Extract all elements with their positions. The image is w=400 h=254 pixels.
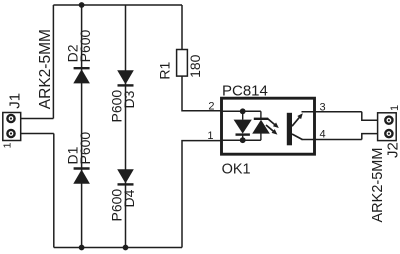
connector J1 body — [3, 113, 21, 141]
pin 1 marker of J2 — [389, 105, 400, 111]
wire bottom bus — [54, 247, 182, 249]
svg-text:2: 2 — [208, 100, 214, 112]
label D2 — [65, 44, 81, 62]
svg-text:R1: R1 — [157, 61, 173, 79]
op-amp U1 optocoupler OK1 box — [222, 98, 315, 154]
wire R1 bottom segment to OK1 pin 2 — [182, 76, 223, 111]
wire J1 pin 2 stub — [21, 118, 54, 120]
label J2 — [385, 142, 400, 158]
wire OK1 pin 3 — [302, 111, 362, 113]
diode D2 — [73, 68, 90, 83]
wire OK1 internal bottom rail — [222, 139, 261, 141]
node junction bottom bus / D1 column — [79, 245, 85, 251]
svg-text:ARK2-5MM: ARK2-5MM — [370, 148, 386, 223]
svg-text:4: 4 — [320, 128, 326, 140]
wire OK1 pin 4 — [302, 139, 362, 141]
svg-text:P600: P600 — [109, 189, 125, 222]
svg-text:J2: J2 — [385, 142, 400, 158]
node LED top junction — [240, 108, 246, 114]
svg-text:P600: P600 — [77, 29, 93, 62]
label ARK2-5MM of J1 — [37, 29, 54, 109]
diode D3 — [117, 70, 134, 85]
svg-text:J1: J1 — [7, 93, 24, 109]
pin number 2 — [208, 100, 214, 112]
value P600 of D2 — [77, 29, 93, 62]
value P600 of D4 — [109, 189, 125, 222]
wire OK1 pin 1 to bottom bus — [182, 141, 223, 248]
svg-text:180: 180 — [187, 54, 203, 78]
resistor R1 body — [177, 50, 188, 77]
connector J2 pin 1 pad — [385, 117, 392, 124]
wire J1 pin 1 stub — [21, 133, 54, 135]
connector J2 body — [378, 113, 397, 141]
label J1 — [7, 93, 24, 109]
label ARK2-5MM of J2 — [370, 148, 386, 223]
wire left vertical to bottom bus — [53, 134, 55, 248]
value P600 of D1 — [77, 132, 93, 165]
value 180 of R1 — [187, 54, 203, 78]
value P600 of D3 — [109, 90, 125, 123]
connector J1 pin 2 pad — [7, 115, 14, 122]
wire top bus — [53, 4, 182, 6]
connector J2 pin 2 pad — [385, 130, 392, 137]
light arrow lower — [266, 125, 277, 135]
wire R1 top segment — [181, 5, 183, 50]
pin number 3 — [320, 101, 326, 113]
svg-text:P600: P600 — [77, 132, 93, 165]
label D1 — [65, 146, 81, 164]
pin 1 marker of J1 — [1, 142, 13, 148]
svg-text:OK1: OK1 — [222, 162, 251, 178]
light arrow upper — [268, 119, 279, 128]
label D4 — [121, 189, 137, 207]
diode LED right (up) — [252, 111, 270, 140]
svg-text:ARK2-5MM: ARK2-5MM — [37, 29, 54, 109]
diode LED left (down) — [234, 111, 252, 140]
node LED bottom junction — [240, 137, 246, 143]
svg-text:PC814: PC814 — [222, 82, 268, 99]
connector J1 pin 1 pad — [7, 130, 14, 137]
transistor Q1 collector to pin 4 — [292, 134, 303, 140]
node junction top bus / D2 column — [79, 2, 85, 8]
svg-text:1: 1 — [207, 130, 213, 142]
svg-text:1: 1 — [1, 142, 13, 148]
svg-text:1: 1 — [389, 105, 400, 111]
label D3 — [121, 90, 137, 108]
label OK1 — [222, 162, 251, 178]
wire diode column D3/D4 — [125, 5, 127, 248]
wire left vertical from J1 pin 2 — [52, 5, 54, 119]
wire pin 3 to J2 — [362, 112, 378, 120]
label R1 — [157, 61, 173, 79]
pin number 1 — [207, 130, 213, 142]
wire OK1 internal top rail — [222, 110, 261, 112]
svg-text:P600: P600 — [109, 90, 125, 123]
wire diode column D2/D1 — [81, 5, 83, 248]
pin number 4 — [320, 128, 326, 140]
transistor Q1 emitter (arrow to pin 3) — [292, 113, 303, 126]
node junction bottom bus / D4 column — [123, 245, 129, 251]
label PC814 — [222, 82, 268, 99]
diode D1 — [73, 169, 90, 184]
transistor Q1 base bar — [287, 113, 292, 146]
diode D4 — [117, 169, 134, 184]
wire pin 4 to J2 — [362, 134, 378, 140]
